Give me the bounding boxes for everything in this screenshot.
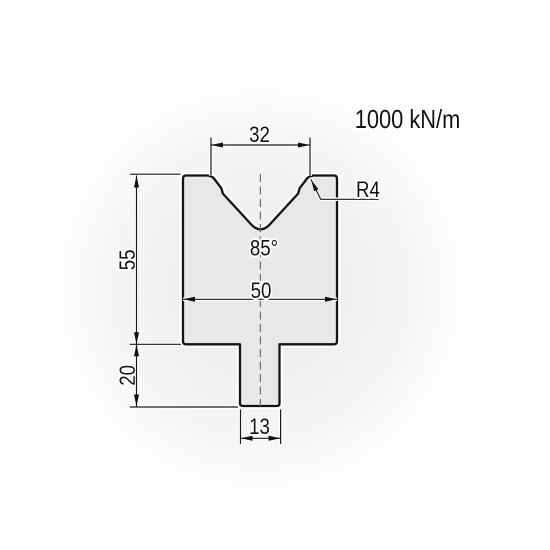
svg-text:85°: 85° (250, 237, 278, 261)
svg-text:1000 kN/m: 1000 kN/m (355, 105, 461, 134)
svg-text:13: 13 (249, 416, 270, 440)
svg-text:R4: R4 (356, 179, 380, 203)
svg-text:50: 50 (251, 280, 272, 304)
svg-text:32: 32 (249, 124, 270, 148)
